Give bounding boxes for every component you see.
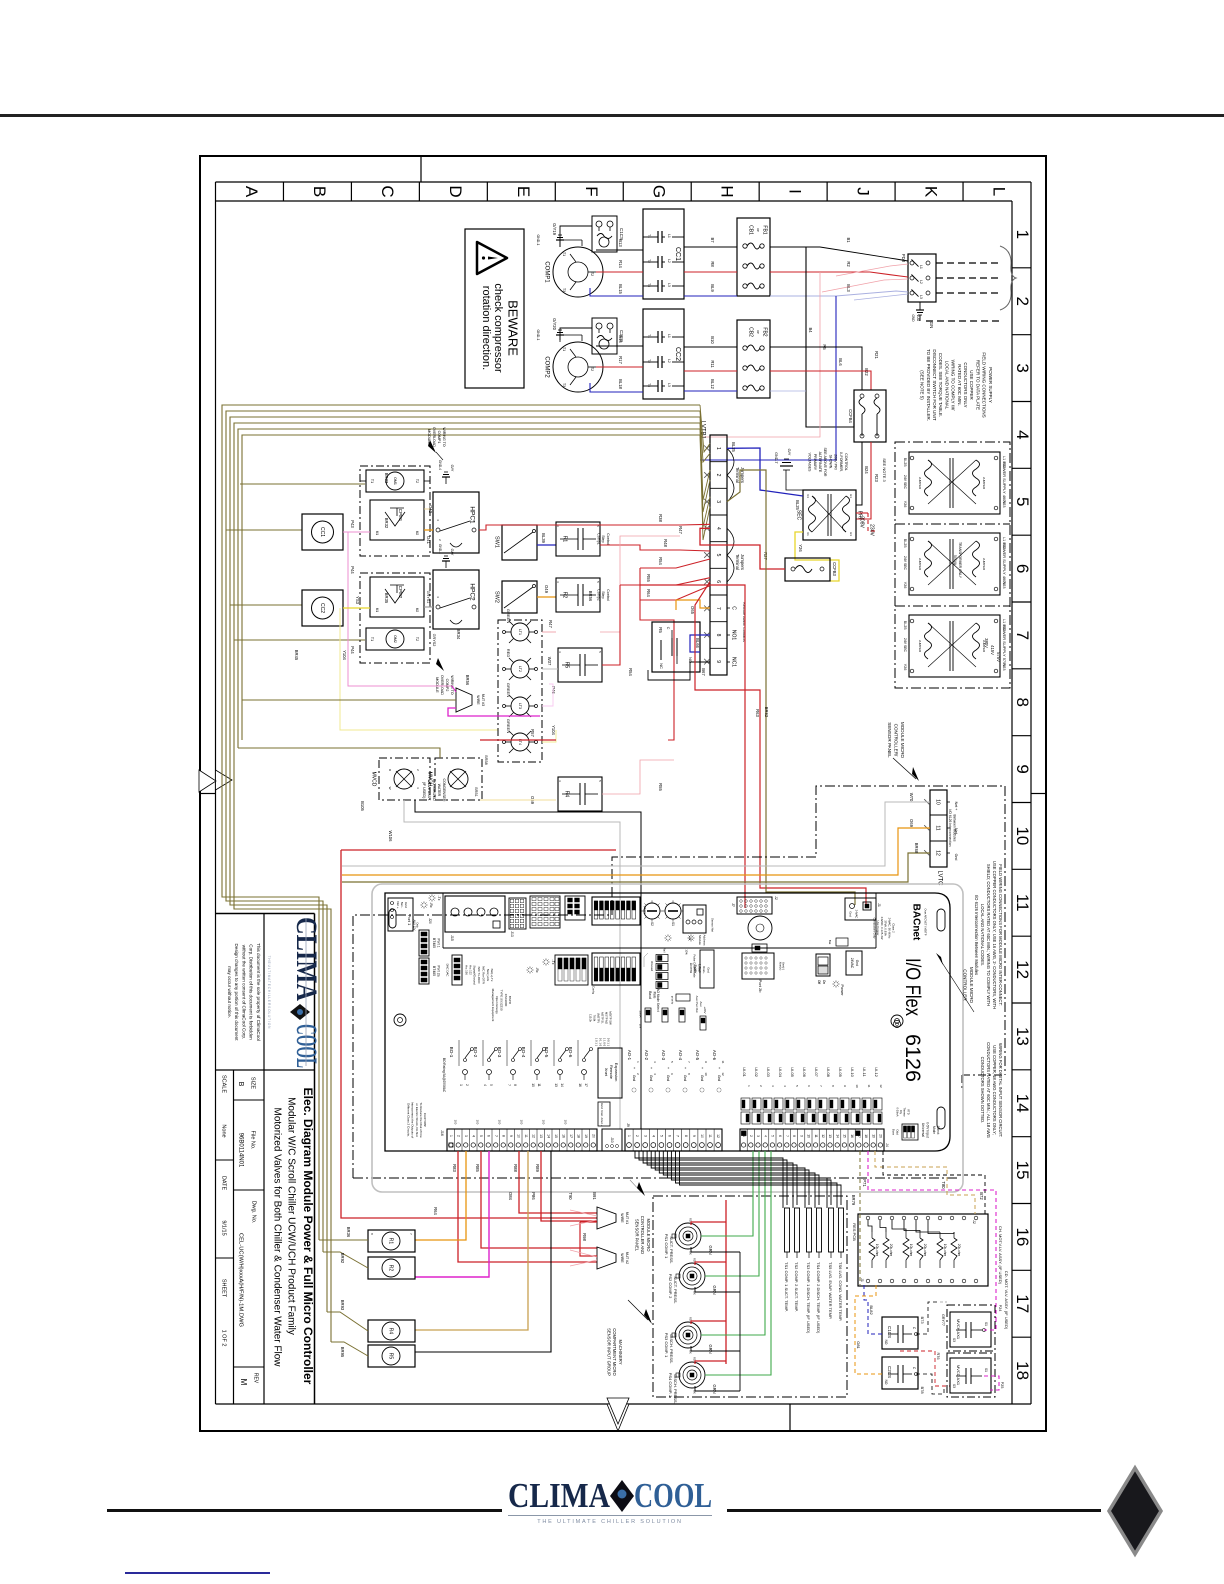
red R54 R55 R64 from LVTB1-5/6 [640, 559, 710, 568]
contactor coil CC2 [302, 590, 343, 626]
olive bundle horizontals [222, 405, 700, 700]
crankcase heater C1CS [592, 216, 617, 252]
jumper grid blocks [530, 896, 560, 928]
contactor CC1 [643, 209, 684, 299]
CPM2 module box [370, 577, 424, 617]
transducer PS1 [675, 1223, 701, 1249]
pink R47 thin [600, 536, 680, 632]
DAC DNC jumpers [452, 955, 462, 985]
controller panel gray outline [372, 884, 963, 1192]
red R48 LVTB1-5 [600, 545, 710, 551]
wire to C2CS [560, 328, 592, 340]
relay R5 [368, 1345, 415, 1367]
magenta P24 P25 [984, 1318, 996, 1330]
rotary switches [644, 903, 660, 919]
crankcase heater C2CS [592, 318, 617, 354]
black tangle J9 to thermistors [639, 1151, 787, 1205]
machinery group dashed box [653, 1196, 847, 1397]
resistor 20k-ohm [951, 1238, 957, 1260]
board internal separator lines [443, 947, 876, 949]
transducer PS2 [679, 1263, 705, 1289]
xnet remote expansion block [598, 1048, 622, 1098]
service brace [1000, 246, 1016, 310]
controller board outline [385, 893, 950, 1151]
vertical feeder R21 [770, 371, 871, 390]
resistor 20k-ohm [917, 1238, 923, 1260]
magenta to wire nut3 [452, 686, 456, 692]
fuse block CCFB4 [854, 390, 886, 442]
rnet local access [700, 950, 714, 988]
terminal jumpers arcs [727, 448, 734, 502]
snubber R2 [556, 578, 600, 612]
field wiring dashed to PDB [936, 262, 1000, 264]
power supply transformers dash-dot enclosure [895, 442, 1010, 688]
red down from HPC area to R64 long [341, 849, 616, 851]
snubber R1 [556, 522, 600, 556]
transducer PS3 [675, 1322, 701, 1348]
border frame inner [215, 182, 217, 1404]
valve MVCH [435, 758, 482, 800]
compressor motor COMP2 [553, 342, 603, 392]
blue BL66 [690, 635, 710, 652]
vertical feeder B4 [806, 247, 854, 427]
switch SW2 [502, 581, 537, 613]
light wires [542, 631, 556, 633]
blue BL12 run [770, 390, 806, 392]
ground GND-T [783, 469, 790, 471]
control transformer [803, 490, 856, 540]
contactor CC2 [643, 309, 684, 399]
board oval slots [937, 909, 945, 931]
terminal strip J9 [625, 1129, 722, 1151]
power supply transformer POWER SUPPLY 460V [909, 452, 1000, 514]
red R38 LVTB1-4 to HPC1 [479, 524, 710, 530]
snubber R4 [558, 777, 602, 811]
top rule [0, 114, 1224, 117]
high pressure switch HPC2 [433, 570, 479, 629]
fuse block FB2 CB2 [737, 320, 770, 398]
switch SW1 [502, 525, 537, 560]
indicator lights enclosure [498, 620, 542, 762]
jog in dash boundary [962, 1074, 1005, 1076]
frame tick marks [420, 156, 422, 182]
wires COMP2 to CC2 B16 R17 BL18 [596, 345, 643, 347]
port1 connector [388, 898, 413, 931]
terminal strip LVTB1 [710, 435, 727, 675]
valve MVCD [379, 758, 430, 800]
warning box beware [465, 229, 524, 388]
thermistor bars [785, 1208, 790, 1252]
24VAC gnd block [846, 951, 862, 975]
dash-dot boundary module panel [353, 786, 1005, 1178]
thin pink diagonals into PDB [836, 264, 908, 276]
CCFB4 to control transformer B24 R23 [856, 442, 862, 505]
red R98 between nuts [580, 1222, 597, 1256]
red network mid [639, 568, 641, 600]
orange O65 [676, 600, 710, 610]
green wires sensors [701, 1151, 753, 1236]
MAC address DIP switch [592, 897, 640, 925]
gray GRYS1 CPM2 to HPC2 [424, 606, 433, 608]
AO mode select jumpers [645, 1008, 651, 1022]
yellow YS3 CC2 to CPM2 [343, 607, 370, 609]
R27 red wire LVTB1-4 to CCFB3 [700, 528, 785, 569]
terminal strip J16 [447, 1129, 597, 1151]
wire nut 3 [456, 688, 472, 712]
title block outline [216, 913, 315, 915]
orange O69 [342, 828, 930, 875]
vertical feeder B22 [770, 347, 862, 390]
resistor 10k-ohm [869, 1238, 875, 1260]
power supply transformer POWER SUPPLY 575V [909, 615, 1000, 677]
resistor 20k-ohm [883, 1238, 889, 1260]
relay R2 [368, 1257, 415, 1279]
footer left rule [107, 1509, 502, 1512]
ground G/Y comp2 module [445, 561, 447, 568]
match-line arrow left [216, 770, 233, 790]
title block cell dividers [234, 1099, 265, 1101]
current switch C2CS [882, 1357, 918, 1389]
wires FB1 to PDB B1 R2 BL3 [770, 246, 820, 248]
res pcb [858, 1214, 988, 1286]
footer right rule [727, 1509, 1101, 1512]
indicator light LT1 [511, 623, 529, 641]
fuse block FB1 CB1 [737, 218, 770, 296]
vertical feeder R5 [700, 272, 820, 437]
resistor 10k-ohm [903, 1238, 909, 1260]
valve MVCD AX1 [947, 1353, 995, 1397]
svg-text:CLIMA: CLIMA [508, 1476, 611, 1515]
gry77 dash wire [940, 1301, 947, 1303]
row2 BT485 Port2a [419, 958, 429, 984]
border frame outer [200, 156, 1046, 1431]
svg-text:THE ULTIMATE CHILLER SOLUTION: THE ULTIMATE CHILLER SOLUTION [537, 1519, 683, 1525]
CPM2 relay OM2 [366, 628, 424, 650]
wires CC2 to FB2 B10 R11 BL12 [684, 346, 737, 348]
ground G/Y19 [559, 240, 561, 247]
wires CC1 to FB1 B7 R8 BL9 [684, 246, 737, 248]
bottom blue rule [125, 1572, 270, 1574]
gray W70 [342, 802, 930, 866]
olive diagonals from LVTB1 [700, 405, 710, 452]
thin red fanouts at nuts [570, 1210, 597, 1216]
res pcb routing [868, 1220, 872, 1232]
wire to C1CS [560, 226, 592, 247]
olive BR68 [342, 853, 930, 882]
grid letter strip [216, 181, 1032, 183]
J6 connector [683, 905, 706, 933]
contactor coil CC1 [302, 514, 343, 550]
row2 dip blocks [555, 955, 588, 985]
power supply transformer POWER SUPPLY 460V [909, 533, 1000, 595]
yellow Y104 vertical [340, 608, 498, 730]
Tx Rx row2 [532, 969, 534, 971]
black dashed B73 B78 to valves [916, 1302, 940, 1334]
wire nut 2 [597, 1247, 616, 1269]
gray W106 long wire [404, 800, 620, 1129]
J7 J2 connectors top [737, 897, 772, 914]
olive feeders to CC coils and CPM [240, 483, 365, 485]
svg-text:COOL: COOL [634, 1476, 712, 1515]
J15 connector [445, 896, 505, 932]
long red R63 and olive BR62 to LVTC area [695, 582, 866, 905]
UI jumper blocks [741, 1098, 750, 1110]
ground G/Y20 [559, 335, 561, 342]
CPM1 module box [370, 500, 424, 540]
port 2b connector [742, 953, 774, 979]
olive to wire nut3 [242, 699, 456, 701]
J10 connector [602, 1129, 622, 1151]
compressor motor COMP1 [553, 247, 603, 297]
pink P43 CC1 to CPM1 [343, 531, 370, 533]
remote alarm snubber box [652, 622, 700, 672]
orange O41 CPM1 to HPC1 [424, 529, 433, 531]
orange dashed O81 [855, 1285, 882, 1374]
olive bundle verticals jog around title block [222, 700, 319, 1240]
buzzer [748, 916, 772, 940]
high pressure switch HPC1 [433, 492, 479, 553]
orange O49 SW2 to R2 [537, 596, 556, 598]
snubber R5 [558, 648, 602, 682]
red jumper SW area [640, 585, 745, 908]
CPM1 relay OM1 [366, 470, 424, 492]
pink P44 vertical [348, 532, 452, 686]
relay R1 [368, 1230, 415, 1252]
J1 24V connector [845, 898, 876, 920]
current switch C1CS [882, 1317, 918, 1349]
relay R4 [368, 1320, 415, 1342]
red R57 MVCH to R4 [480, 739, 556, 741]
transducer PS4 [679, 1362, 705, 1388]
black B67 [648, 662, 710, 680]
module address rotaries [670, 937, 672, 939]
grid number strip [1012, 267, 1031, 269]
bottom-right black diamond [1104, 1464, 1166, 1558]
olive wires to valves [238, 748, 440, 758]
comp1 overload module CPM1 enclosure [360, 466, 430, 556]
Y26 yellow wire SEC to CCFB3 [795, 532, 839, 581]
power distribution block PDB [908, 254, 936, 302]
terminal strip J4 [740, 1129, 884, 1151]
indicator light LT3 [511, 697, 529, 715]
red bus sensors [725, 1200, 727, 1364]
valve MVCH AX1 [947, 1305, 995, 1351]
fuse CCFB3 [785, 558, 830, 581]
black B105 long wire [415, 800, 641, 1129]
tec label [836, 938, 848, 946]
comp2 overload module CPM2 enclosure [360, 573, 430, 663]
baud jumper pairs [656, 955, 668, 962]
wire nut 1 [597, 1207, 616, 1229]
terminal strip LVTC [930, 790, 947, 867]
BL25 blue wire LVTB1-1 to SEC [727, 448, 803, 496]
power switch [816, 954, 830, 976]
wire drops from J16 [458, 1151, 597, 1262]
ground G/Y comp1 module [445, 477, 447, 484]
black wires sensors [691, 1247, 740, 1252]
indicator light LT2 [511, 660, 529, 678]
screw hole [394, 1014, 406, 1026]
resistor 10k-ohm [937, 1238, 943, 1260]
ground lug GN [919, 302, 921, 310]
blue dashed BL82 [864, 1285, 882, 1334]
BT485 Port1 block [419, 930, 429, 956]
olive relay feeds [319, 1239, 368, 1241]
J13 block [509, 898, 526, 929]
sensor dashed drops [859, 1151, 861, 1285]
red dashed R76 [900, 1351, 950, 1386]
vertical feeder BL6 [700, 296, 836, 460]
match-line arrow bottom [607, 1404, 629, 1431]
Tx Rx leds [426, 904, 428, 906]
indicator light LT4 [511, 733, 529, 751]
wires COMP1 to CC1 B13 R14 BL15 [596, 249, 643, 251]
